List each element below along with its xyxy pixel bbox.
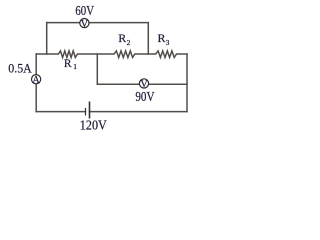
svg-text:90V: 90V — [135, 89, 154, 104]
svg-text:R: R — [64, 58, 72, 70]
svg-text:R: R — [118, 31, 126, 45]
svg-text:V: V — [81, 19, 89, 30]
svg-text:3: 3 — [166, 38, 170, 47]
svg-text:60V: 60V — [75, 3, 94, 18]
svg-text:1: 1 — [73, 62, 77, 71]
svg-text:0.5A: 0.5A — [8, 61, 32, 76]
svg-text:120V: 120V — [80, 118, 107, 133]
svg-text:2: 2 — [127, 38, 131, 47]
svg-text:R: R — [158, 31, 166, 45]
svg-text:A: A — [32, 75, 40, 86]
